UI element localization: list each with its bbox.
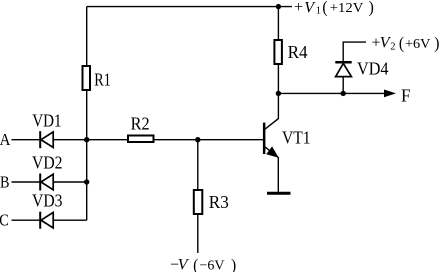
- svg-text:VD4: VD4: [357, 59, 389, 79]
- svg-text:A: A: [0, 130, 11, 149]
- svg-text:2: 2: [390, 41, 395, 52]
- svg-text:F: F: [401, 85, 411, 105]
- svg-text:VD1: VD1: [32, 111, 61, 131]
- svg-text:(: (: [322, 0, 327, 17]
- svg-text:1: 1: [316, 6, 321, 17]
- svg-text:R4: R4: [288, 42, 308, 62]
- svg-text:+: +: [294, 0, 303, 16]
- svg-text:B: B: [0, 173, 10, 192]
- svg-text:+6V: +6V: [405, 37, 431, 52]
- svg-text:C: C: [0, 211, 9, 230]
- svg-text:): ): [434, 33, 439, 52]
- svg-text:−6V: −6V: [200, 259, 225, 272]
- svg-text:VT1: VT1: [282, 128, 311, 148]
- svg-text:R2: R2: [131, 114, 150, 134]
- svg-text:R3: R3: [209, 192, 229, 212]
- svg-text:+12V: +12V: [330, 1, 364, 16]
- svg-text:(: (: [399, 33, 404, 52]
- svg-text:): ): [231, 255, 236, 272]
- svg-text:): ): [369, 0, 374, 17]
- svg-text:(: (: [193, 255, 198, 272]
- svg-text:R1: R1: [94, 70, 111, 90]
- svg-text:VD3: VD3: [32, 191, 63, 211]
- svg-text:VD2: VD2: [32, 152, 63, 172]
